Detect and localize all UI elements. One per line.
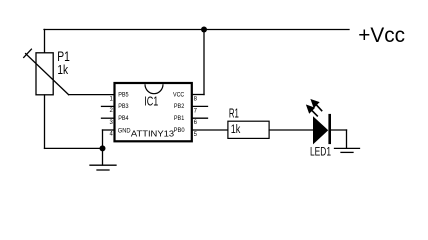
svg-text:1k: 1k: [57, 62, 68, 77]
svg-text:PB3: PB3: [118, 103, 129, 110]
svg-text:R1: R1: [229, 107, 239, 121]
svg-text:VCC: VCC: [173, 91, 184, 98]
svg-text:ATTINY13: ATTINY13: [131, 129, 174, 139]
svg-text:+Vcc: +Vcc: [358, 24, 405, 47]
svg-text:LED1: LED1: [310, 145, 331, 158]
svg-text:PB4: PB4: [118, 115, 129, 122]
svg-text:IC1: IC1: [144, 94, 158, 109]
svg-text:GND: GND: [118, 127, 131, 134]
svg-text:1k: 1k: [231, 122, 241, 136]
svg-text:PB5: PB5: [118, 91, 129, 98]
svg-text:PB2: PB2: [174, 103, 185, 110]
svg-text:PB1: PB1: [174, 115, 185, 122]
svg-text:PB0: PB0: [174, 127, 185, 134]
